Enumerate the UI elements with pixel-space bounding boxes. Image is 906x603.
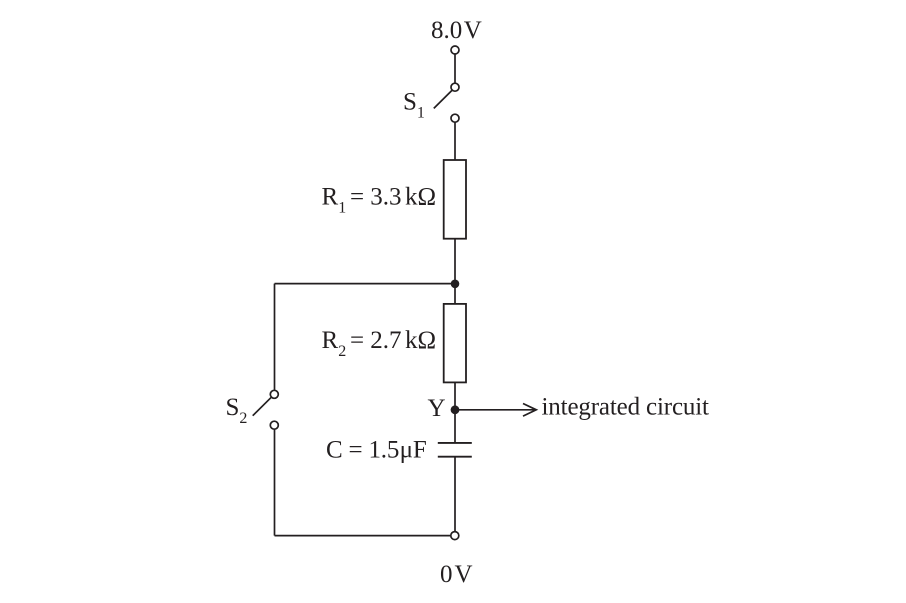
switch S1 lever [434, 90, 452, 108]
wire left branch vertical lower [274, 429, 276, 535]
switch S2 top contact [270, 390, 278, 398]
capacitor C bottom plate [438, 456, 472, 458]
svg-text:S2: S2 [226, 394, 248, 427]
svg-text:R1 = 3.3kΩ: R1 = 3.3kΩ [322, 184, 437, 217]
wire bottom horizontal [275, 535, 451, 537]
terminal bottom 0V [451, 532, 459, 540]
svg-text:integrated circuit: integrated circuit [542, 393, 710, 420]
svg-text:Y: Y [428, 395, 446, 422]
wire S1 to R1 [454, 122, 456, 160]
svg-text:R2 = 2.7kΩ: R2 = 2.7kΩ [322, 327, 437, 360]
wire R2 to capacitor [454, 382, 456, 443]
switch S1 bottom contact [451, 114, 459, 122]
svg-text:0V: 0V [440, 561, 473, 588]
terminal top 8.0V [451, 46, 459, 54]
node Y dot [451, 405, 460, 414]
wire terminal to S1 [454, 54, 456, 83]
switch S1 top contact [451, 83, 459, 91]
svg-text:C = 1.5μF: C = 1.5μF [326, 436, 427, 463]
wire R1 to R2 [454, 239, 456, 304]
wire left branch vertical upper [274, 284, 276, 391]
resistor R2 [444, 304, 466, 383]
resistor R1 [444, 160, 466, 239]
switch S2 bottom contact [270, 421, 278, 429]
capacitor C top plate [438, 442, 472, 444]
svg-text:8.0V: 8.0V [431, 17, 482, 44]
wire arrow to integrated circuit [459, 409, 536, 411]
switch S2 lever [253, 397, 272, 416]
wire capacitor to bottom terminal [454, 457, 456, 532]
arrowhead [523, 404, 536, 417]
svg-text:S1: S1 [403, 89, 425, 122]
wire junction to left branch [275, 283, 456, 285]
junction node dot [451, 280, 460, 289]
